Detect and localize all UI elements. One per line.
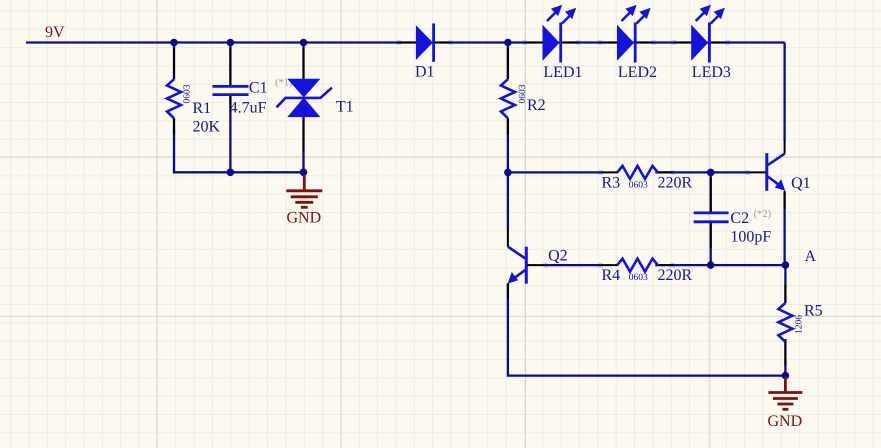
- LED1: [543, 5, 583, 81]
- pin C2 bottom: [710, 222, 712, 248]
- svg-text:220R: 220R: [658, 267, 693, 284]
- wire T1 branch bottom: [302, 117, 304, 172]
- pin LED2 anode: [600, 42, 617, 44]
- ground GND left: [286, 174, 322, 207]
- svg-text:R3: R3: [602, 175, 621, 192]
- wire 9V top rail: [26, 41, 785, 43]
- pin R3 right: [655, 171, 672, 173]
- pin R5 top: [784, 285, 786, 303]
- pin Q1 emitter: [784, 191, 786, 209]
- ground GND bottom: [768, 377, 802, 409]
- junction top rail at R2: [504, 39, 512, 47]
- svg-text:R2: R2: [527, 97, 546, 114]
- pin T1 top: [303, 49, 305, 79]
- wire C2 bottom branch: [710, 222, 712, 266]
- wire R3 to Q1 base: [655, 171, 749, 173]
- svg-text:T1: T1: [336, 99, 354, 116]
- svg-text:R4: R4: [602, 267, 621, 284]
- resistor R1: [167, 79, 221, 135]
- wire C1 branch bottom: [229, 96, 231, 172]
- capacitor C1: [213, 78, 293, 117]
- pin Q2 base: [526, 264, 544, 266]
- svg-text:Q1: Q1: [791, 175, 811, 192]
- wire R4 to node A: [655, 264, 785, 266]
- resistor R4: [602, 259, 693, 285]
- wire node A to R5: [784, 265, 786, 303]
- wire row3 Q2 base to R4 to node A: [545, 264, 601, 266]
- svg-text:1206: 1206: [795, 315, 805, 334]
- junction left rail at T1/GND: [300, 169, 308, 177]
- pin C1 top: [229, 49, 231, 86]
- TVS diode T1: [277, 79, 354, 117]
- svg-text:(*2): (*2): [754, 209, 772, 220]
- wire R2 branch from top rail: [507, 43, 509, 80]
- svg-text:R5: R5: [804, 303, 823, 320]
- pin LED3 cathode: [710, 42, 727, 44]
- wire row2 R2 to R3: [508, 171, 601, 173]
- svg-text:GND: GND: [768, 413, 803, 430]
- svg-text:0603: 0603: [183, 84, 193, 103]
- junction row2 at R2: [504, 169, 512, 177]
- junction left rail at C1: [227, 169, 235, 177]
- svg-text:LED3: LED3: [692, 64, 731, 81]
- svg-text:R1: R1: [193, 100, 212, 117]
- svg-text:A: A: [805, 248, 817, 265]
- wire Q1 emitter to node A: [783, 192, 785, 265]
- svg-text:4.7uF: 4.7uF: [230, 100, 267, 117]
- resistor R2: [501, 79, 546, 118]
- wire C1 branch top: [229, 43, 231, 86]
- svg-text:100pF: 100pF: [730, 229, 771, 246]
- pin Q1 base: [749, 171, 767, 173]
- pin R5 bottom: [784, 339, 786, 365]
- junction top rail at C1: [227, 39, 235, 47]
- pin Q2 collector: [507, 229, 509, 247]
- svg-text:220R: 220R: [658, 175, 693, 192]
- pin Q1 collector: [784, 140, 786, 153]
- pin R4 right: [655, 264, 672, 266]
- pin LED2 cathode: [636, 42, 653, 44]
- transistor Q2: [508, 247, 568, 284]
- wire T1 branch top: [302, 43, 304, 79]
- capacitor C2: [694, 209, 772, 246]
- pin C1 bottom: [229, 96, 231, 112]
- wire R1 branch vertical: [173, 43, 175, 80]
- svg-text:C2: C2: [730, 210, 749, 227]
- junction bottom rail at GND: [782, 372, 790, 380]
- pin endpoint marks: [397, 40, 751, 267]
- pin LED3 anode: [674, 42, 691, 44]
- svg-text:9V: 9V: [45, 24, 65, 41]
- pin LED1 cathode: [562, 42, 579, 44]
- svg-text:LED2: LED2: [618, 64, 657, 81]
- pin R3 left: [601, 171, 618, 173]
- wire R1 bottom to left rail: [174, 118, 304, 172]
- transistor Q1: [767, 153, 811, 192]
- junction top rail at T1: [300, 39, 308, 47]
- pin R1 top: [173, 49, 175, 80]
- wire right vertical from top rail to Q1 collector: [783, 43, 785, 142]
- pin C2 top: [710, 178, 712, 213]
- junction node A: [782, 261, 790, 269]
- svg-text:C1: C1: [249, 80, 268, 97]
- pin LED1 anode: [525, 42, 543, 44]
- wire C2 top branch: [710, 172, 712, 212]
- junction row3 at C2: [707, 261, 715, 269]
- pin R2 top: [507, 49, 509, 80]
- svg-text:GND: GND: [287, 209, 322, 226]
- resistor R3: [602, 166, 693, 192]
- wire R2 bottom to node row: [507, 118, 509, 228]
- LED3: [691, 5, 731, 81]
- junction row2 at C2: [707, 169, 715, 177]
- svg-text:0603: 0603: [629, 180, 648, 190]
- svg-text:0603: 0603: [629, 273, 648, 283]
- junction top rail at R1: [170, 39, 178, 47]
- pin R1 bottom: [173, 118, 175, 134]
- svg-text:20K: 20K: [193, 119, 221, 136]
- diode D1: [415, 23, 435, 80]
- pin D1 cathode: [435, 42, 451, 44]
- pin R4 left: [601, 264, 618, 266]
- pin Q2 emitter: [507, 283, 509, 299]
- wire Q2 emitter down to bottom rail: [508, 283, 786, 375]
- pin R2 bottom: [507, 118, 509, 134]
- pin T1 bottom: [303, 117, 305, 152]
- svg-text:LED1: LED1: [543, 64, 582, 81]
- resistor R5: [778, 303, 822, 342]
- pin D1 anode: [397, 42, 416, 44]
- svg-text:D1: D1: [415, 64, 435, 81]
- LED2: [617, 5, 657, 81]
- wire R5 to bottom rail: [784, 339, 786, 375]
- svg-text:Q2: Q2: [548, 248, 568, 265]
